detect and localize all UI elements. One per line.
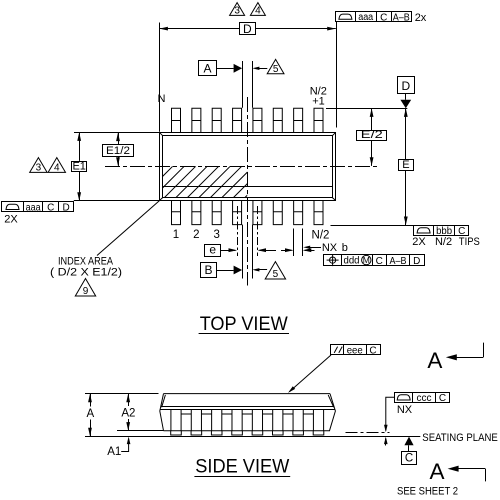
svg-text:M: M: [363, 255, 370, 265]
svg-text:E1: E1: [72, 161, 85, 173]
svg-text:2x: 2x: [415, 12, 427, 24]
parallelism leader arrow: [290, 355, 332, 392]
svg-text:C: C: [405, 452, 413, 464]
D dimension line and arrows: [159, 28, 239, 30]
profile frame ccc C (seating): [395, 393, 450, 403]
svg-text:C: C: [47, 203, 54, 214]
svg-text:2: 2: [193, 229, 199, 241]
E1 dimension box: [72, 162, 87, 172]
section A arrow (top): [483, 343, 485, 358]
svg-text:NX: NX: [322, 242, 338, 254]
svg-text:4: 4: [54, 163, 60, 174]
svg-text:( D/2 X E1/2): ( D/2 X E1/2): [50, 267, 122, 279]
profile frame aaa C D (left): [2, 202, 74, 212]
svg-text:INDEX AREA: INDEX AREA: [58, 255, 114, 267]
svg-text:+1: +1: [312, 96, 325, 108]
E1 top extension line: [74, 132, 159, 134]
svg-text:SEATING PLANE: SEATING PLANE: [422, 432, 498, 444]
side view far-row lead bend lines: [181, 413, 313, 415]
svg-text:5: 5: [273, 269, 279, 280]
seating plane line: [85, 436, 420, 438]
svg-text:3: 3: [234, 6, 240, 17]
svg-text:SIDE VIEW: SIDE VIEW: [195, 457, 289, 478]
svg-text:B: B: [204, 263, 212, 277]
datum B leader and solid triangle: [217, 270, 234, 272]
revision triangle 3 (top): [230, 3, 245, 16]
svg-text:D: D: [401, 79, 410, 93]
datum B extension line (bottom): [242, 225, 244, 279]
svg-text:2X: 2X: [4, 214, 18, 226]
E1 dimension line and arrows: [79, 132, 81, 161]
svg-text:A: A: [429, 459, 444, 484]
datum B box: [201, 263, 217, 278]
A2 dimension line, arrows and label: [128, 394, 130, 406]
E bottom extension line: [331, 225, 414, 227]
lead tips line: [346, 432, 390, 434]
revision triangle 9: [75, 279, 95, 297]
svg-text:C: C: [369, 346, 376, 357]
side view body corner bevel lines: [162, 395, 334, 407]
side view top extension line: [85, 393, 159, 395]
svg-text:N/2: N/2: [312, 229, 330, 241]
E1/2 dimension box: [103, 145, 134, 157]
svg-text:3: 3: [214, 229, 220, 241]
svg-text:e: e: [209, 242, 216, 256]
svg-text:5: 5: [273, 64, 279, 75]
svg-text:SEE SHEET 2: SEE SHEET 2: [397, 485, 458, 497]
D dimension extension line left: [159, 23, 161, 132]
note 5 extension line (top): [252, 61, 254, 108]
svg-text:E1/2: E1/2: [106, 145, 130, 157]
svg-text:ddd: ddd: [344, 256, 360, 267]
seating plane datum C triangle: [404, 437, 413, 446]
svg-text:C: C: [380, 12, 387, 23]
profile frame aaa C A-B (top right): [336, 12, 412, 22]
svg-text:A: A: [86, 408, 94, 420]
E1/2 dimension line and arrows: [118, 132, 120, 144]
b dimension extension lines (lead 7): [293, 229, 295, 257]
svg-text:A: A: [203, 61, 211, 75]
index area leader line: [97, 201, 159, 256]
svg-text:D: D: [62, 203, 69, 214]
D dimension box: [240, 23, 256, 35]
svg-text:b: b: [342, 242, 348, 254]
svg-text:A1: A1: [107, 446, 121, 458]
svg-text:A2: A2: [121, 408, 135, 420]
svg-text:9: 9: [83, 286, 89, 297]
svg-text:ccc: ccc: [417, 393, 432, 404]
revision triangle 4 (top): [250, 3, 265, 16]
svg-text:eee: eee: [347, 346, 363, 357]
ccc leader with arrows: [386, 397, 395, 430]
revision triangle 3 (left): [30, 158, 47, 173]
svg-text:D: D: [413, 256, 420, 267]
datum D solid triangle: [400, 100, 411, 109]
top row leads (N/2+1 .. N): [172, 108, 324, 132]
svg-text:N: N: [158, 93, 166, 105]
svg-text:E: E: [402, 159, 409, 171]
svg-text:C: C: [439, 393, 446, 404]
E1 bottom extension line / leader to datum frame: [74, 200, 160, 202]
revision triangle 4 (left): [48, 158, 65, 173]
svg-text:N/2: N/2: [435, 236, 452, 248]
svg-text:2X: 2X: [412, 236, 426, 248]
svg-text:TIPS: TIPS: [459, 236, 480, 248]
lead 5 centerline (e dimension): [257, 206, 259, 256]
svg-text:E/2: E/2: [361, 129, 383, 141]
svg-text:A: A: [427, 348, 442, 373]
svg-text:A–B: A–B: [393, 12, 410, 23]
body corner bevel diagonals: [159, 132, 335, 200]
parallelism frame eee C: [331, 345, 381, 355]
datum D box (right): [398, 77, 415, 94]
datum A leader and solid triangle: [216, 68, 234, 70]
lead 4 centerline (e datum): [237, 206, 239, 256]
svg-text:TOP VIEW: TOP VIEW: [200, 314, 288, 335]
svg-text:A–B: A–B: [390, 256, 407, 267]
svg-text:1: 1: [173, 229, 179, 241]
note triangle 5 (bottom): [265, 262, 285, 279]
E dimension line and arrows: [405, 108, 407, 160]
note triangle 5 (top): [267, 59, 284, 73]
side view body outline: [160, 394, 336, 431]
E dimension box: [399, 160, 414, 171]
note 5 extension line (bottom): [252, 225, 254, 279]
A dimension line, arrows and label: [90, 394, 92, 407]
svg-text:NX: NX: [397, 404, 413, 416]
svg-text:C: C: [376, 256, 383, 267]
position symbol: [330, 257, 336, 263]
E top extension line: [326, 108, 407, 110]
note 5 leader (bottom): [257, 269, 268, 271]
e dimension leader arrows: [221, 250, 236, 252]
side view lead feet (near row): [171, 431, 324, 435]
datum A extension line (top): [242, 61, 244, 108]
profile frame bbb C (lead tips): [414, 226, 469, 236]
svg-text:aaa: aaa: [358, 12, 373, 23]
horizontal centerline: [105, 166, 378, 168]
package body outer outline (top view): [160, 133, 336, 201]
svg-text:D: D: [243, 22, 252, 36]
datum A box: [199, 61, 217, 76]
section A arrow (bottom): [485, 469, 487, 482]
e dimension box: [205, 245, 221, 257]
bottom row leads (1 .. N/2): [172, 201, 324, 225]
E/2 dimension line and arrows: [371, 108, 373, 130]
D dimension extension line right: [336, 22, 338, 128]
svg-text:3: 3: [36, 163, 42, 174]
b dimension arrows: [281, 250, 292, 252]
side view leads comb: [171, 410, 324, 431]
datum C box: [402, 452, 417, 465]
svg-text:4: 4: [255, 6, 261, 17]
position frame ddd M C A-B D: [324, 255, 425, 266]
svg-text:aaa: aaa: [26, 202, 41, 213]
body parting line: [163, 186, 332, 188]
vertical centerline: [247, 97, 249, 286]
package body inner outline (top view): [163, 136, 333, 198]
A2 bottom extension line: [117, 430, 164, 432]
note 5 leader (top): [257, 68, 268, 70]
M modifier circle: [362, 255, 371, 264]
side view lead frame band lines: [161, 406, 334, 408]
E/2 dimension box: [357, 131, 387, 141]
